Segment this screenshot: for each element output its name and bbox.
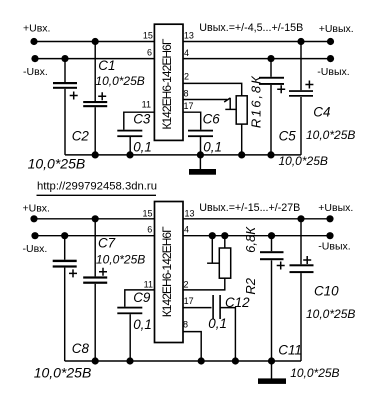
- svg-text:Uвых.=+/-4,5...+/-15В: Uвых.=+/-4,5...+/-15В: [199, 22, 303, 34]
- svg-text:17: 17: [184, 296, 194, 306]
- svg-text:0,1: 0,1: [208, 316, 227, 331]
- svg-text:6,8К: 6,8К: [243, 226, 258, 253]
- svg-text:10,0*25В: 10,0*25В: [34, 364, 92, 380]
- svg-text:0,1: 0,1: [133, 139, 152, 154]
- svg-text:-Uвх.: -Uвх.: [23, 66, 48, 78]
- svg-text:11: 11: [142, 99, 151, 109]
- svg-text:10,0*25В: 10,0*25В: [96, 253, 145, 267]
- svg-text:C11: C11: [278, 343, 302, 358]
- svg-text:C5: C5: [279, 129, 297, 144]
- svg-text:4: 4: [184, 48, 189, 58]
- svg-text:6: 6: [147, 47, 152, 57]
- svg-text:0,1: 0,1: [203, 139, 222, 154]
- svg-text:+Uвых.: +Uвых.: [319, 23, 354, 35]
- svg-text:11: 11: [144, 280, 153, 290]
- svg-text:17: 17: [184, 101, 194, 111]
- svg-text:К142ЕН6-142ЕН6Г: К142ЕН6-142ЕН6Г: [160, 38, 174, 129]
- svg-text:+Uвх.: +Uвх.: [23, 23, 50, 35]
- svg-text:4: 4: [184, 225, 189, 235]
- svg-text:8: 8: [183, 319, 188, 329]
- svg-text:15: 15: [142, 208, 152, 218]
- svg-text:-Uвых.: -Uвых.: [318, 241, 350, 253]
- svg-text:8: 8: [184, 88, 189, 98]
- svg-text:10,0*25В: 10,0*25В: [279, 154, 328, 168]
- svg-text:C2: C2: [72, 128, 90, 143]
- svg-text:10,0*25В: 10,0*25В: [290, 366, 339, 380]
- svg-text:+Uвых.: +Uвых.: [318, 202, 353, 214]
- svg-text:C1: C1: [98, 58, 115, 73]
- svg-text:+Uвх.: +Uвх.: [23, 202, 50, 214]
- svg-text:-Uвх.: -Uвх.: [23, 243, 48, 255]
- svg-text:C8: C8: [72, 341, 90, 356]
- svg-text:C7: C7: [98, 236, 116, 251]
- svg-text:C9: C9: [133, 290, 151, 305]
- svg-text:10,0*25В: 10,0*25В: [95, 74, 144, 88]
- svg-text:C10: C10: [314, 284, 339, 299]
- svg-text:2: 2: [184, 280, 189, 290]
- svg-text:10,0*25В: 10,0*25В: [28, 156, 86, 172]
- svg-text:R2: R2: [243, 277, 258, 294]
- svg-text:http://299792458.3dn.ru: http://299792458.3dn.ru: [37, 181, 157, 193]
- svg-text:К142ЕН6-142ЕН6Г: К142ЕН6-142ЕН6Г: [160, 226, 174, 317]
- svg-text:13: 13: [184, 30, 194, 40]
- svg-text:13: 13: [185, 208, 195, 218]
- svg-text:0,1: 0,1: [133, 317, 152, 332]
- svg-text:C3: C3: [133, 112, 151, 127]
- svg-text:2: 2: [184, 72, 189, 82]
- svg-text:Uвых.=+/-15...+/-27В: Uвых.=+/-15...+/-27В: [199, 202, 300, 214]
- svg-text:C4: C4: [313, 105, 330, 120]
- svg-text:R16,8К: R16,8К: [248, 74, 263, 128]
- svg-text:C6: C6: [203, 112, 221, 127]
- svg-text:15: 15: [143, 30, 153, 40]
- svg-text:C12: C12: [225, 295, 250, 310]
- svg-text:-Uвых.: -Uвых.: [317, 66, 349, 78]
- svg-text:10,0*25В: 10,0*25В: [306, 307, 355, 321]
- svg-text:10,0*25В: 10,0*25В: [306, 128, 355, 142]
- svg-text:6: 6: [147, 225, 152, 235]
